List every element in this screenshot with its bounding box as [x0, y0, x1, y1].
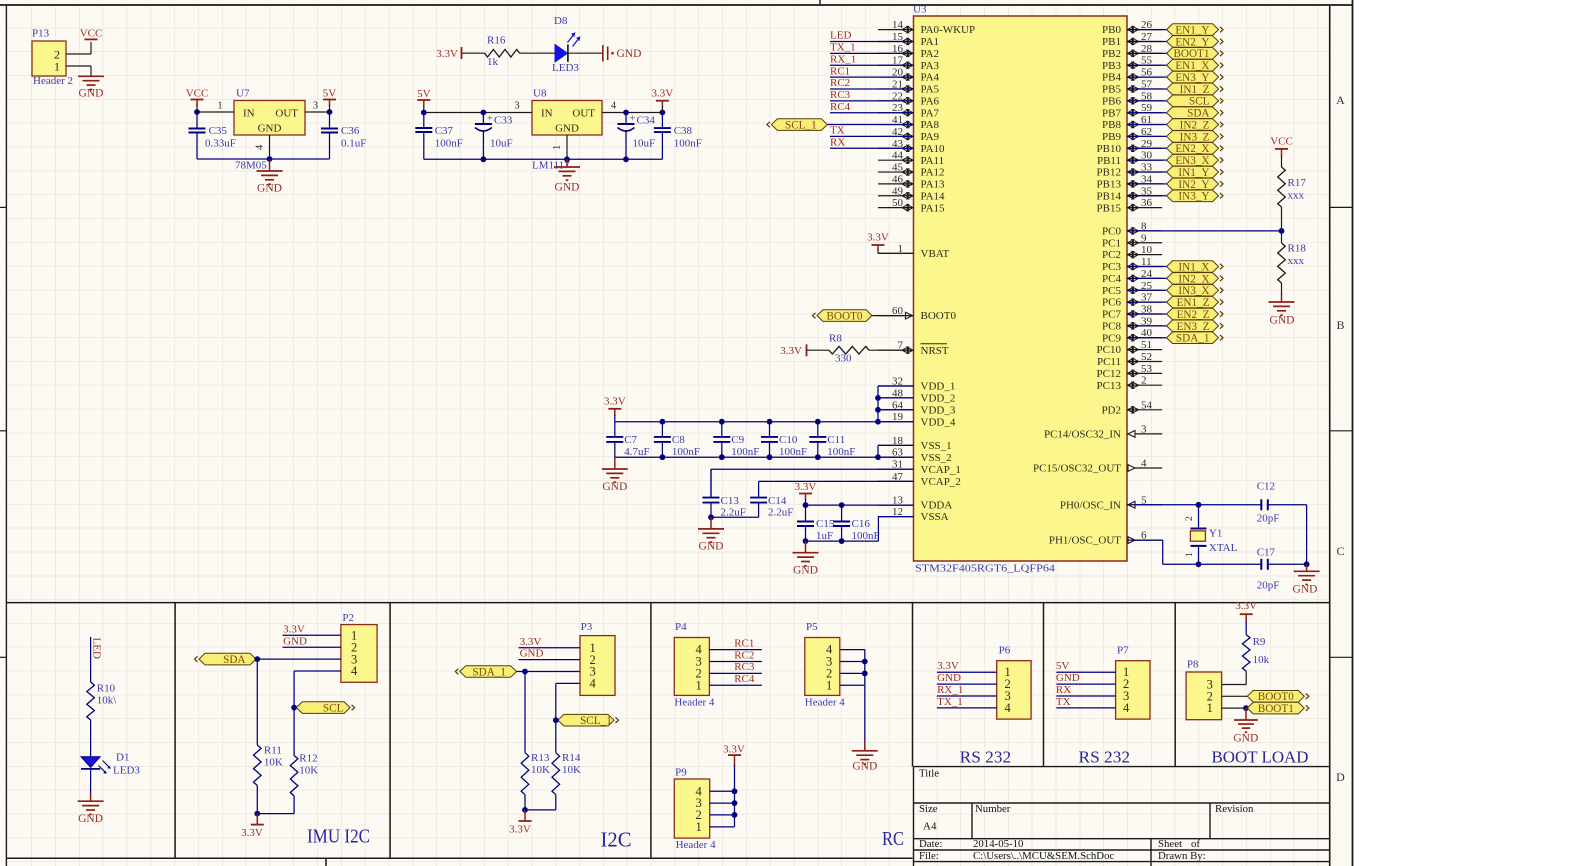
resistor R9 [1242, 635, 1250, 672]
pin 24 PC4 [1102, 268, 1162, 285]
svg-text:2.2uF: 2.2uF [768, 507, 793, 519]
wire net TX [830, 135, 914, 137]
svg-text:SCL: SCL [1189, 96, 1210, 108]
svg-text:GND: GND [602, 481, 627, 493]
connector P4 [674, 621, 709, 695]
port EN3_X (PB11) [1167, 154, 1223, 167]
svg-text:PC4: PC4 [1102, 273, 1121, 285]
pin 59 PB7 [1102, 102, 1162, 119]
svg-text:IN3_Z: IN3_Z [1180, 131, 1210, 143]
pin 22 PA6 [878, 90, 940, 107]
svg-text:PC13: PC13 [1097, 380, 1122, 392]
label R8 [829, 333, 842, 345]
svg-text:PC3: PC3 [1102, 261, 1121, 273]
svg-text:Date:: Date: [919, 838, 942, 850]
wire D8-GND [568, 52, 602, 54]
svg-text:EN2_Y: EN2_Y [1175, 36, 1209, 48]
svg-text:C7: C7 [624, 434, 637, 446]
svg-text:46: 46 [892, 173, 904, 185]
svg-text:PC0: PC0 [1102, 226, 1121, 238]
svg-text:PA2: PA2 [921, 48, 940, 60]
svg-text:XTAL: XTAL [1209, 542, 1238, 554]
power 3.3V (VDD rail) [604, 396, 626, 417]
svg-text:1k: 1k [487, 56, 499, 68]
svg-text:PA12: PA12 [921, 167, 945, 179]
label R10 [97, 683, 118, 707]
svg-text:5V: 5V [323, 88, 337, 100]
wire 3.3V drop [661, 106, 663, 113]
wire P2 pin1 3.3V [283, 634, 341, 636]
svg-text:A: A [1336, 93, 1345, 107]
svg-text:5V: 5V [1056, 660, 1070, 672]
section title I2C [601, 828, 632, 852]
junction VDDA (3.3V) [803, 502, 809, 508]
wire PB2 to port [1127, 52, 1167, 54]
svg-text:PH1/OSC_OUT: PH1/OSC_OUT [1049, 535, 1121, 547]
resistor R11 [254, 745, 262, 786]
capacitor C37 [415, 113, 463, 160]
net label TX [830, 125, 845, 137]
junction C9 top [719, 419, 725, 425]
svg-text:BOOT0: BOOT0 [826, 311, 862, 323]
svg-text:PA5: PA5 [921, 84, 940, 96]
svg-text:GND: GND [852, 761, 877, 773]
net label 3.3V (P6) [937, 660, 959, 672]
label R16 [487, 35, 506, 47]
svg-text:4: 4 [590, 677, 597, 691]
svg-text:PC10: PC10 [1097, 344, 1122, 356]
wire LED net [90, 637, 92, 682]
title block grid [914, 767, 1330, 866]
pin 55 PB3 [1102, 55, 1162, 72]
connector P3 [580, 621, 615, 695]
svg-text:330: 330 [835, 352, 852, 364]
wire 3.3V-R9 [1245, 622, 1247, 635]
wire PB9 to port [1127, 135, 1167, 137]
wire U7 in [197, 105, 234, 112]
svg-text:3: 3 [313, 101, 318, 112]
svg-text:RC4: RC4 [830, 101, 851, 113]
svg-text:U7: U7 [236, 88, 250, 100]
svg-text:4: 4 [255, 144, 266, 150]
junction P5 pin2 [862, 671, 868, 677]
wire P8 pin2 [1222, 695, 1248, 697]
wire PB1 to port [1127, 40, 1167, 42]
junction SCL_1/R14 [553, 717, 559, 723]
svg-text:P6: P6 [999, 645, 1011, 657]
pin 53 PC12 [1097, 363, 1163, 380]
capacitor C34 [618, 113, 656, 160]
svg-text:OUT: OUT [275, 108, 298, 120]
wire PC4 to port [1127, 277, 1167, 279]
net label GND (P7) [1056, 672, 1080, 684]
wire 3.3V rail [615, 415, 914, 422]
svg-text:52: 52 [1141, 351, 1152, 363]
junction VDD_3 [875, 407, 881, 413]
svg-text:100nF: 100nF [827, 446, 855, 458]
label R14 [562, 752, 581, 776]
pin 48 VDD_2 [878, 387, 955, 404]
label R9 [1253, 636, 1270, 666]
pin 36 PB15 [1097, 197, 1163, 214]
svg-text:VDD_2: VDD_2 [921, 393, 956, 405]
svg-text:BOOT LOAD: BOOT LOAD [1212, 747, 1309, 766]
net label TX (P7) [1056, 696, 1071, 708]
svg-text:100nF: 100nF [674, 137, 702, 149]
pin 1 VBAT [878, 243, 950, 260]
power VCC (P13) [80, 28, 103, 40]
label R17 [1288, 177, 1307, 202]
pin 56 PB4 [1102, 67, 1162, 84]
svg-text:EN3_Z: EN3_Z [1177, 321, 1210, 333]
pin 13 VDDA [878, 495, 952, 512]
svg-text:PB0: PB0 [1102, 24, 1121, 36]
port SDA (PB7) [1167, 107, 1223, 120]
pin 32 VDD_1 [878, 376, 955, 393]
wire VCAP_1 [711, 469, 914, 497]
svg-text:GND: GND [555, 182, 580, 194]
wire U8 out [602, 112, 662, 114]
svg-text:SCL: SCL [323, 703, 344, 715]
wire SDA_1-R13 [524, 672, 526, 753]
svg-text:PA7: PA7 [921, 107, 940, 119]
svg-text:PC15/OSC32_OUT: PC15/OSC32_OUT [1033, 463, 1121, 475]
wire SDA-R11 [256, 659, 258, 745]
svg-text:SCL_1: SCL_1 [580, 715, 612, 727]
svg-text:File:: File: [919, 850, 939, 862]
junction C10 bottom [767, 454, 773, 460]
wire C17 right [1268, 563, 1307, 565]
svg-text:PB14: PB14 [1097, 190, 1122, 202]
svg-text:2: 2 [1185, 516, 1195, 521]
zone letter C [1336, 544, 1344, 558]
pin 6 PH1/OSC_OUT [1049, 530, 1162, 547]
wire P13 pin2 [66, 42, 91, 54]
power 3.3V (R16) [436, 47, 461, 60]
port BOOT0 (pin60) [813, 310, 873, 323]
label Header 4 (P4) [674, 696, 715, 708]
pin 18 VSS_1 [878, 435, 952, 452]
power 3.3V (NRST) [780, 344, 806, 357]
junction PH0/Y1 [1196, 502, 1202, 508]
junction P9 pin4 [732, 788, 738, 794]
junction 3.3V/C38 [660, 110, 666, 116]
svg-text:PC7: PC7 [1102, 309, 1121, 321]
wire P7 pin3 [1056, 695, 1115, 697]
net label RX_1 (P6) [937, 684, 963, 696]
svg-text:1: 1 [696, 678, 702, 692]
label Header 2 [33, 75, 73, 87]
svg-text:P8: P8 [1187, 659, 1199, 671]
wire P7 pin1 [1056, 671, 1115, 673]
wire P2 pin4 [294, 671, 341, 708]
pin 5 PH0/OSC_IN [1060, 494, 1162, 511]
svg-text:PA1: PA1 [921, 36, 940, 48]
svg-text:1: 1 [1207, 701, 1213, 715]
junction VSS rail [875, 454, 881, 460]
svg-text:10k\: 10k\ [97, 695, 118, 707]
wire VBAT [878, 249, 914, 253]
pin 49 PA14 [878, 185, 945, 202]
ground (D1) [78, 801, 104, 825]
label Header 4 (P9) [676, 839, 717, 851]
junction C8 top [660, 419, 666, 425]
pin 62 PB9 [1102, 126, 1162, 143]
svg-text:EN1_Z: EN1_Z [1177, 297, 1210, 309]
svg-text:PC5: PC5 [1102, 285, 1121, 297]
wire R17-PC0 [1281, 207, 1283, 231]
port IN3_Z (PB9) [1167, 131, 1223, 144]
svg-text:C:\Users\..\MCU&SEM.SchDoc: C:\Users\..\MCU&SEM.SchDoc [973, 850, 1114, 862]
svg-text:VSS_1: VSS_1 [921, 440, 952, 452]
port EN3_Y (PB4) [1167, 71, 1223, 84]
pin 30 PB11 [1097, 150, 1162, 167]
wire PH1 [1127, 540, 1261, 564]
svg-text:PC14/OSC32_IN: PC14/OSC32_IN [1044, 429, 1121, 441]
svg-text:PA14: PA14 [921, 190, 946, 202]
svg-text:IN2_Z: IN2_Z [1180, 119, 1210, 131]
resistor R17 [1278, 167, 1286, 207]
svg-text:C: C [1336, 544, 1344, 558]
wire P9 bus [710, 765, 735, 827]
svg-text:1: 1 [54, 59, 60, 73]
svg-text:PB9: PB9 [1102, 131, 1121, 143]
capacitor C8 [654, 422, 700, 458]
svg-text:TX_1: TX_1 [937, 696, 963, 708]
svg-text:xxx: xxx [1288, 255, 1305, 267]
power 5V (U8) [417, 88, 431, 107]
pin 35 PB14 [1097, 185, 1163, 202]
pin 28 PB2 [1102, 43, 1162, 60]
svg-text:U3: U3 [913, 4, 927, 16]
svg-text:PB12: PB12 [1097, 167, 1121, 179]
svg-text:U8: U8 [533, 88, 547, 100]
svg-text:RC: RC [882, 828, 904, 850]
svg-text:EN2_Z: EN2_Z [1177, 309, 1210, 321]
pin 37 PC6 [1102, 292, 1162, 309]
svg-text:RS 232: RS 232 [1079, 747, 1131, 766]
junction SCL/R12 [291, 705, 297, 711]
svg-text:R10: R10 [97, 683, 116, 695]
svg-text:TX: TX [830, 125, 845, 137]
ground (P8) [1233, 708, 1258, 745]
junction R13/3.3V [522, 807, 528, 813]
pin 34 PB13 [1097, 173, 1163, 190]
port EN1_X (PB3) [1167, 59, 1223, 72]
ground (U7) [257, 159, 283, 195]
svg-text:VCAP_1: VCAP_1 [921, 464, 961, 476]
svg-text:EN1_X: EN1_X [1175, 60, 1209, 72]
wire net RX [830, 147, 914, 149]
svg-text:EN3_X: EN3_X [1175, 155, 1209, 167]
port BOOT0 (P8) [1247, 691, 1309, 704]
svg-text:IN1_X: IN1_X [1178, 261, 1209, 273]
svg-text:TX_1: TX_1 [830, 42, 856, 54]
wire PB7 to port [1127, 112, 1167, 114]
connector P9 [674, 767, 709, 839]
net label TX_1 (P6) [937, 696, 963, 708]
pin 8 PC0 [1102, 220, 1162, 237]
svg-text:R14: R14 [562, 752, 581, 764]
svg-text:36: 36 [1141, 197, 1153, 209]
wire R16-D8 [520, 52, 555, 54]
net label RX (P7) [1056, 684, 1071, 696]
port EN2_Z (PC7) [1167, 308, 1223, 321]
port EN3_Z (PC8) [1167, 320, 1223, 333]
svg-text:10k: 10k [1253, 654, 1270, 666]
pin 61 PB8 [1102, 114, 1162, 131]
svg-text:PH0/OSC_IN: PH0/OSC_IN [1060, 499, 1121, 511]
svg-text:EN3_Y: EN3_Y [1175, 72, 1209, 84]
junction U7 gnd [267, 156, 273, 162]
svg-text:PB15: PB15 [1097, 202, 1122, 214]
svg-text:BOOT0: BOOT0 [1258, 691, 1294, 703]
net label RC2 [830, 77, 850, 89]
ground (XTAL) [1293, 564, 1320, 595]
svg-text:VDDA: VDDA [921, 500, 953, 512]
wire P7 pin2 [1056, 683, 1115, 685]
wire VCAP_2 [759, 480, 914, 482]
svg-text:1: 1 [217, 101, 222, 112]
svg-text:RX_1: RX_1 [830, 53, 856, 65]
wire SDA_1-P3 [517, 671, 581, 673]
net label LED (vertical) [91, 638, 103, 659]
power 3.3V (U8) [652, 88, 674, 107]
port SCL_1 [558, 714, 619, 727]
junction R11/3.3V [254, 811, 260, 817]
port IN1_Z (PB5) [1167, 83, 1223, 96]
svg-text:PC1: PC1 [1102, 237, 1121, 249]
svg-text:3.3V: 3.3V [652, 88, 674, 100]
svg-text:C12: C12 [1257, 480, 1275, 492]
svg-text:R16: R16 [487, 35, 506, 47]
svg-text:RC4: RC4 [734, 673, 755, 685]
wire 3.3V-R16 [462, 52, 485, 54]
junction C8 bottom [660, 454, 666, 460]
pin 47 VCAP_2 [878, 471, 961, 488]
wire NRST left [807, 349, 830, 351]
svg-text:R17: R17 [1288, 177, 1307, 189]
svg-text:Revision: Revision [1215, 803, 1254, 815]
junction C17/GND [1304, 561, 1310, 567]
port EN2_Y (PB1) [1167, 36, 1223, 49]
net label RC2 (P4) [734, 649, 754, 661]
capacitor C9 [713, 422, 759, 458]
svg-text:PA15: PA15 [921, 202, 946, 214]
wire U8 in [424, 106, 532, 113]
net label GND (P3) [520, 648, 544, 660]
svg-text:20pF: 20pF [1257, 513, 1280, 525]
wire P8 pin1 [1222, 707, 1248, 709]
power 5V (U7) [323, 88, 337, 107]
svg-text:3.3V: 3.3V [795, 481, 817, 493]
junction VDD_4 [875, 419, 881, 425]
port SDA [195, 653, 257, 666]
crystal Y1 [1185, 505, 1207, 565]
resistor R14 [552, 753, 560, 795]
wire PB8 to port [1127, 124, 1167, 126]
svg-text:SDA: SDA [1187, 108, 1209, 120]
svg-text:NRST: NRST [921, 345, 949, 357]
svg-text:3.3V: 3.3V [937, 660, 959, 672]
capacitor C14 [750, 481, 793, 518]
svg-text:OUT: OUT [572, 108, 595, 120]
mcu U3 body [913, 4, 1127, 575]
pin 17 PA3 [878, 55, 940, 72]
port EN1_Z (PC6) [1167, 296, 1223, 309]
wire P5 bus [840, 650, 865, 686]
svg-text:RX: RX [1056, 684, 1071, 696]
wire C13-C14 bottom [711, 516, 759, 518]
svg-text:C11: C11 [827, 434, 845, 446]
svg-text:IN2_X: IN2_X [1178, 273, 1209, 285]
pin 40 PC9 [1102, 327, 1162, 344]
svg-text:RC3: RC3 [830, 89, 851, 101]
svg-text:SDA: SDA [223, 654, 245, 666]
net label RX_1 [830, 53, 856, 65]
svg-text:P9: P9 [675, 767, 687, 779]
pin 12 VSSA [878, 506, 949, 523]
svg-text:GND: GND [520, 648, 544, 660]
svg-text:PB10: PB10 [1097, 143, 1122, 155]
pin 41 PA8 [878, 114, 940, 131]
svg-text:BOOT0: BOOT0 [921, 310, 957, 322]
svg-text:R9: R9 [1253, 636, 1266, 648]
wire R11-R12 bottom [257, 786, 294, 814]
power 3.3V (VBAT) [867, 232, 889, 250]
svg-text:51: 51 [1141, 339, 1152, 351]
wire R9-P8 [1222, 671, 1247, 684]
svg-text:14: 14 [892, 19, 904, 31]
ground (C7) [602, 457, 628, 493]
svg-text:IN: IN [243, 108, 255, 120]
svg-text:D8: D8 [554, 15, 568, 27]
port IN1_Y (PB12) [1167, 166, 1223, 179]
wire PA8 to SCL_1 port [827, 124, 913, 126]
wire PC0-R18 [1281, 231, 1283, 243]
junction C37 top [421, 110, 427, 116]
pin 20 PA4 [878, 67, 940, 84]
net label GND (P2) [283, 635, 307, 647]
svg-text:GND: GND [555, 123, 579, 135]
svg-text:4.7uF: 4.7uF [624, 446, 649, 458]
port EN1_Y (PB0) [1167, 24, 1223, 37]
net label 3.3V (P2) [283, 623, 305, 635]
wire PC3 to port [1127, 266, 1167, 268]
svg-text:4: 4 [1141, 458, 1147, 470]
svg-text:3: 3 [514, 101, 519, 112]
svg-text:Title: Title [919, 768, 939, 780]
wire P3 pin2 GND [519, 659, 580, 661]
value 1k [487, 56, 499, 68]
resistor R10 [87, 682, 95, 720]
svg-text:SDA_1: SDA_1 [472, 666, 506, 678]
section title RS 232 (2) [1079, 747, 1131, 766]
svg-text:PB3: PB3 [1102, 60, 1121, 72]
svg-text:VSS_2: VSS_2 [921, 452, 952, 464]
svg-text:Drawn By:: Drawn By: [1158, 850, 1206, 862]
capacitor C35 [189, 112, 236, 159]
svg-text:C37: C37 [435, 125, 454, 137]
wire VDDA [806, 499, 914, 505]
wire P2 pin2 GND [283, 646, 341, 648]
value 330 [835, 352, 852, 364]
svg-text:100nF: 100nF [779, 446, 807, 458]
ground (R18) [1269, 302, 1295, 327]
wire U8 gnd rail [424, 135, 663, 159]
svg-text:RC3: RC3 [734, 661, 755, 673]
svg-text:R8: R8 [829, 333, 842, 345]
